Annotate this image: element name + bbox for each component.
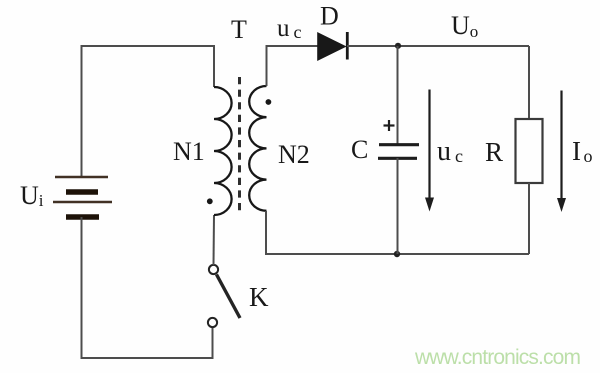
svg-text:uc: uc	[277, 15, 302, 42]
transformer core	[238, 77, 241, 214]
wire: battery bottom to lower-left rail	[82, 217, 213, 358]
svg-text:T: T	[231, 15, 247, 44]
svg-text:K: K	[249, 282, 269, 312]
node: bottom junction	[394, 251, 400, 257]
arrow uc (capacitor voltage)	[425, 90, 434, 212]
svg-text:N1: N1	[173, 137, 205, 166]
wire: bottom output rail	[266, 211, 529, 254]
wire: resistor bottom to bottom rail	[528, 183, 530, 254]
svg-text:Io: Io	[572, 136, 593, 166]
arrow Io (output current)	[557, 91, 566, 213]
svg-text:N2: N2	[278, 140, 310, 169]
svg-text:R: R	[485, 137, 503, 167]
diode D	[318, 32, 348, 60]
battery Ui	[53, 177, 112, 217]
svg-text:Uo: Uo	[451, 11, 478, 41]
svg-text:Ui: Ui	[20, 181, 44, 210]
svg-text:C: C	[351, 135, 368, 164]
wire: capacitor to bottom node	[397, 158, 399, 254]
wire: secondary top to diode anode	[267, 46, 318, 86]
polarity dot (primary)	[207, 198, 213, 204]
polarity dot (secondary)	[266, 99, 272, 105]
polarity + of capacitor	[384, 120, 395, 131]
transformer T primary winding N1	[214, 87, 232, 215]
switch K	[208, 265, 240, 327]
wire: top-left horizontal rail	[82, 46, 215, 177]
transformer secondary winding N2	[249, 86, 266, 211]
svg-text:www.cntronics.com: www.cntronics.com	[414, 346, 581, 369]
resistor R	[516, 119, 543, 183]
node: top junction	[395, 43, 401, 49]
svg-text:D: D	[320, 2, 339, 31]
wire: right rail down to resistor	[528, 46, 530, 119]
wire: top node down to capacitor	[397, 46, 399, 144]
capacitor C	[378, 145, 419, 159]
svg-text:uc: uc	[437, 136, 463, 167]
wire: switch to primary winding	[213, 215, 216, 265]
wire: diode cathode to top-right corner	[347, 45, 529, 47]
